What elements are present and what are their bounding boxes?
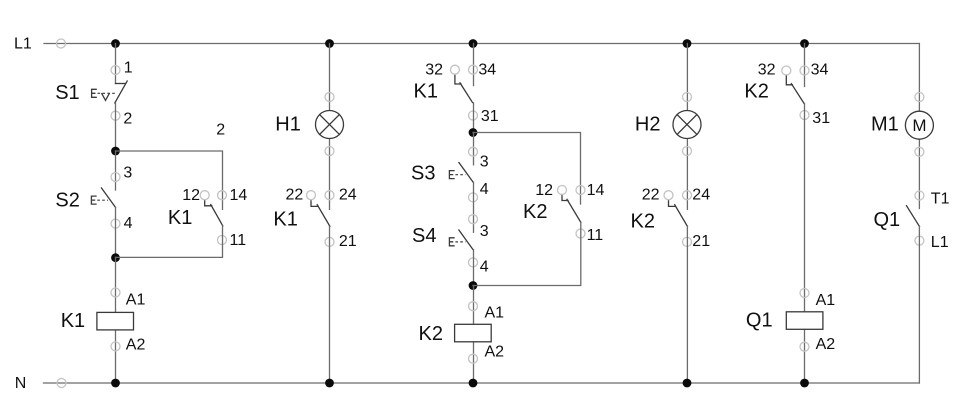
pin 21 <box>683 237 692 246</box>
svg-text:Q1: Q1 <box>746 310 773 332</box>
wire branch4 lower <box>686 226 688 383</box>
pin A2 of coil K1 <box>111 342 120 351</box>
svg-text:K2: K2 <box>419 323 443 345</box>
pin 31 <box>800 111 809 120</box>
svg-text:4: 4 <box>480 259 489 276</box>
pin 1 of S1 <box>111 66 120 75</box>
pin 11 <box>218 236 227 245</box>
lamp H1 <box>316 111 344 139</box>
junction L1/branch5 <box>800 39 809 48</box>
contact K1 aux (12/14/11 changeover) <box>205 200 223 226</box>
svg-text:A2: A2 <box>126 337 146 354</box>
wire branch4 upper <box>686 44 688 210</box>
wire S2 to lower node <box>115 207 117 257</box>
svg-text:24: 24 <box>692 186 710 203</box>
svg-text:22: 22 <box>286 186 304 203</box>
wire node to S2 <box>115 151 117 190</box>
junction L1/branch1 <box>111 39 120 48</box>
coil Q1 <box>786 312 823 330</box>
motor M1 <box>905 111 933 139</box>
svg-text:T1: T1 <box>931 190 950 207</box>
pin 12 <box>558 186 567 195</box>
switch S2 (NO pushbutton) <box>91 188 115 208</box>
pin 22 <box>664 191 673 200</box>
pin A1 of coil K1 <box>111 288 120 297</box>
svg-text:A2: A2 <box>816 336 836 353</box>
terminal on N rail <box>57 379 66 388</box>
wire branch6 lower <box>918 227 920 384</box>
wire branch3 top <box>473 44 475 86</box>
wire node to coil K1 and N <box>115 257 117 383</box>
pin 4 of S2 <box>111 219 120 228</box>
wire K1 aux to lower node <box>116 226 223 258</box>
svg-text:A1: A1 <box>816 292 836 309</box>
svg-text:K2: K2 <box>631 210 655 232</box>
pin 4 of S3 <box>469 193 478 202</box>
wire L1 rail <box>44 43 919 45</box>
junction N/branch5 <box>800 379 809 388</box>
wire S1 to node <box>115 103 117 151</box>
svg-text:A1: A1 <box>485 304 505 321</box>
junction lower node <box>111 253 120 262</box>
wire K2 aux to lower node <box>473 222 581 285</box>
junction L1/branch3 <box>469 39 478 48</box>
svg-text:S3: S3 <box>411 162 435 184</box>
pin 4 of S4 <box>469 258 478 267</box>
wire S4 to lower node <box>473 250 475 286</box>
svg-text:32: 32 <box>758 61 776 78</box>
pin 3 of S4 <box>469 215 478 224</box>
svg-text:L1: L1 <box>14 36 32 53</box>
svg-text:21: 21 <box>339 233 357 250</box>
junction L1/branch4 <box>683 39 692 48</box>
pin 24 <box>325 191 334 200</box>
junction N/branch4 <box>683 379 692 388</box>
svg-text:H1: H1 <box>275 114 301 136</box>
wire branch2 upper <box>329 44 331 210</box>
pin x2 of motor M1 <box>915 147 924 156</box>
svg-text:4: 4 <box>124 215 133 232</box>
contact K2 aux (12/14/11 changeover) <box>562 195 581 223</box>
terminal on L1 rail <box>57 39 66 48</box>
svg-text:A2: A2 <box>485 344 505 361</box>
svg-text:24: 24 <box>339 186 357 203</box>
switch S3 (NO pushbutton) <box>449 163 473 183</box>
svg-text:S4: S4 <box>412 225 436 247</box>
svg-text:22: 22 <box>642 186 660 203</box>
svg-text:14: 14 <box>587 182 605 199</box>
wire node to coil K2 and N <box>473 286 475 384</box>
pin 14 <box>218 191 227 200</box>
contact K2 (22/24/21) <box>669 200 688 227</box>
contact Q1 (NO) <box>907 206 920 227</box>
svg-text:S2: S2 <box>55 190 79 212</box>
pin A1 of coil K2 <box>469 302 478 311</box>
pin 32 <box>782 66 791 75</box>
svg-text:K1: K1 <box>414 81 438 103</box>
switch S1 (NC pushbutton) <box>92 81 128 103</box>
pin 34 <box>800 66 809 75</box>
pin A2 of coil Q1 <box>800 342 809 351</box>
svg-text:3: 3 <box>480 223 489 240</box>
wire branch5 top <box>804 44 806 87</box>
contact K2 (32/34/31) <box>786 75 804 103</box>
svg-text:12: 12 <box>535 182 553 199</box>
lamp H2 <box>673 111 701 139</box>
coil K2 <box>455 324 492 342</box>
svg-text:34: 34 <box>811 61 829 78</box>
junction N/branch3 <box>469 379 478 388</box>
pin 12 <box>200 191 209 200</box>
svg-text:K1: K1 <box>168 207 192 229</box>
pin A2 of coil K2 <box>469 354 478 363</box>
svg-text:31: 31 <box>481 108 499 125</box>
wire branch6 upper <box>918 44 920 209</box>
pin x1 of lamp H1 <box>325 93 334 102</box>
pin x2 of lamp H2 <box>683 147 692 156</box>
junction N/branch2 <box>325 379 334 388</box>
svg-text:34: 34 <box>478 61 496 78</box>
wire 31 to node <box>473 103 475 133</box>
svg-text:H2: H2 <box>635 114 661 136</box>
pin 3 of S2 <box>111 173 120 182</box>
pin x2 of lamp H1 <box>325 147 334 156</box>
svg-text:K1: K1 <box>273 208 297 230</box>
svg-text:K1: K1 <box>61 310 85 332</box>
svg-text:2: 2 <box>123 111 132 128</box>
svg-text:S1: S1 <box>55 82 79 104</box>
wire S3 to S4 <box>473 182 475 232</box>
svg-text:3: 3 <box>480 153 489 170</box>
coil K1 <box>97 312 134 330</box>
wire N rail <box>44 382 920 384</box>
pin 24 <box>683 191 692 200</box>
switch S4 (NO pushbutton) <box>449 230 473 250</box>
svg-text:N: N <box>15 375 27 392</box>
svg-text:K2: K2 <box>744 81 768 103</box>
svg-text:Q1: Q1 <box>874 209 901 231</box>
junction node 31 <box>469 128 478 137</box>
contact K1 (32/34/31) <box>455 74 473 102</box>
pin L1 <box>915 236 924 245</box>
svg-text:K2: K2 <box>523 201 547 223</box>
junction lower node branch3 <box>469 281 478 290</box>
svg-text:12: 12 <box>182 187 200 204</box>
svg-text:11: 11 <box>587 227 604 244</box>
pin 11 <box>576 229 585 238</box>
pin 34 <box>469 65 478 74</box>
svg-text:4: 4 <box>480 181 489 198</box>
svg-text:L1: L1 <box>931 234 949 251</box>
pin 14 <box>576 186 585 195</box>
pin x1 of motor M1 <box>915 93 924 102</box>
wire branch2 lower <box>329 226 331 383</box>
contact K1 (22/24/21) <box>311 200 330 227</box>
svg-text:11: 11 <box>230 232 247 249</box>
svg-text:M1: M1 <box>871 114 899 136</box>
svg-text:32: 32 <box>425 61 443 78</box>
junction N/branch1 <box>111 379 120 388</box>
pin 31 <box>469 111 478 120</box>
pin A1 of coil Q1 <box>800 289 809 298</box>
svg-text:14: 14 <box>230 187 248 204</box>
wire 31 to coil Q1 and N <box>804 104 806 384</box>
pin 2 of S1 <box>111 111 120 120</box>
wire node to S3 <box>473 133 475 165</box>
pin 32 <box>450 65 459 74</box>
junction L1/branch2 <box>325 39 334 48</box>
pin 21 <box>325 237 334 246</box>
pin 3 of S3 <box>469 147 478 156</box>
svg-text:21: 21 <box>692 233 710 250</box>
pin T1 <box>915 191 924 200</box>
wire node2 to K1 aux contact (net 2) <box>116 151 223 209</box>
wire node31 to K2 aux contact <box>473 133 581 205</box>
junction node 2 <box>111 147 120 156</box>
svg-text:2: 2 <box>216 122 225 139</box>
svg-text:A1: A1 <box>126 291 146 308</box>
wire branch1 top <box>115 44 117 84</box>
svg-text:31: 31 <box>812 110 830 127</box>
pin x1 of lamp H2 <box>683 93 692 102</box>
pin 22 <box>307 191 316 200</box>
svg-text:M: M <box>912 116 926 135</box>
svg-text:3: 3 <box>123 165 132 182</box>
svg-text:1: 1 <box>124 59 133 76</box>
